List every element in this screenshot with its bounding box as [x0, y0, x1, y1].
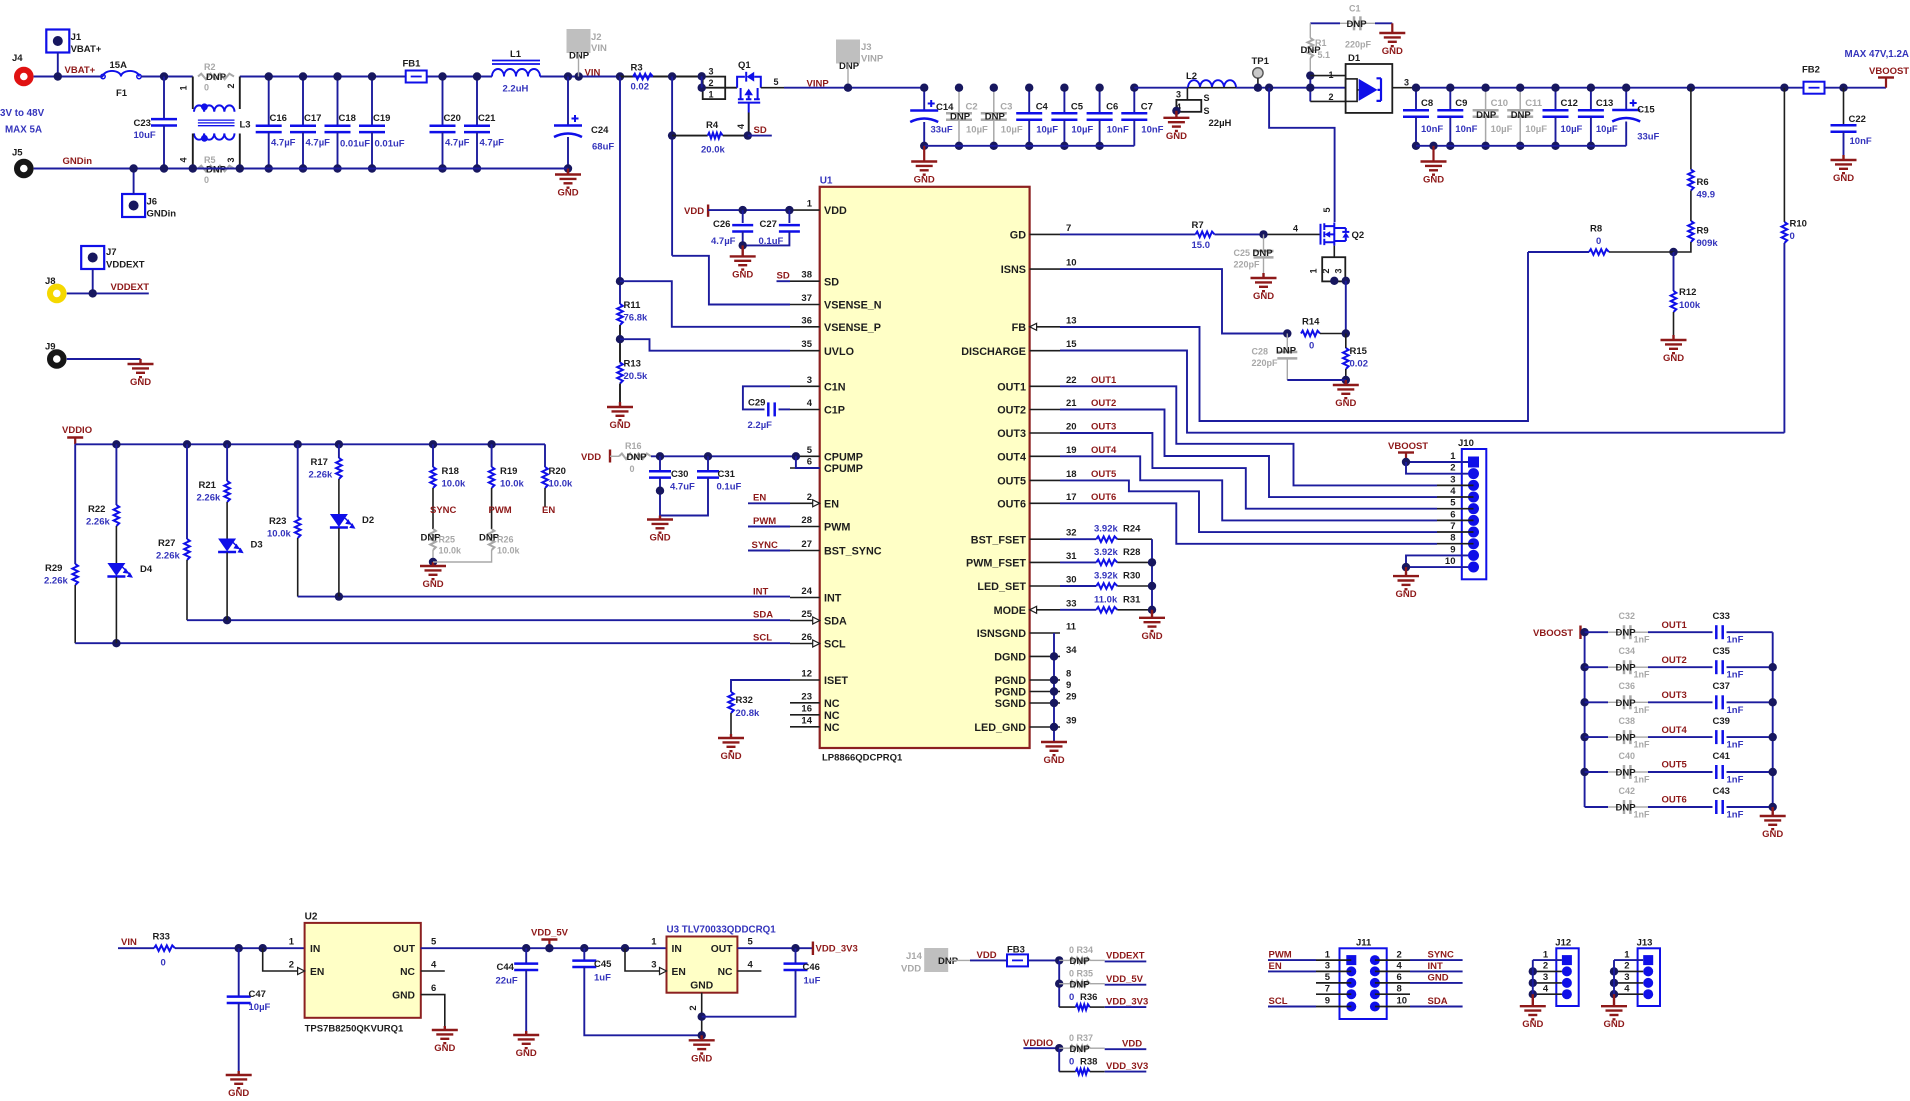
svg-text:SYNC: SYNC [430, 505, 457, 516]
resistor R24 3.92k [1060, 538, 1096, 540]
svg-text:GND: GND [1395, 589, 1416, 600]
svg-text:VINP: VINP [861, 54, 884, 65]
svg-text:1: 1 [1309, 268, 1319, 273]
ground R25 R26 [420, 562, 446, 579]
svg-text:20.0k: 20.0k [701, 145, 725, 156]
svg-text:10nF: 10nF [1141, 125, 1163, 136]
J10 pin 9 [1468, 550, 1479, 561]
svg-text:OUT1: OUT1 [1662, 620, 1688, 631]
svg-text:VBAT+: VBAT+ [71, 44, 102, 55]
svg-text:OUT2: OUT2 [1091, 398, 1116, 409]
svg-text:22uF: 22uF [496, 976, 518, 987]
svg-text:C11: C11 [1525, 98, 1543, 109]
svg-text:2: 2 [708, 78, 713, 88]
svg-text:0 R35: 0 R35 [1069, 968, 1093, 978]
svg-text:DNP: DNP [839, 61, 860, 72]
svg-text:VDDEXT: VDDEXT [1106, 951, 1145, 962]
J13 pin 3 [1643, 978, 1653, 988]
capacitor C34 DNP 1nF [1580, 663, 1588, 671]
capacitor C40 DNP 1nF [1580, 768, 1588, 776]
svg-text:VBOOST: VBOOST [1533, 628, 1573, 639]
svg-text:C31: C31 [718, 469, 736, 480]
capacitor C37 1nF [1648, 701, 1713, 703]
svg-text:33uF: 33uF [1637, 132, 1659, 143]
svg-text:10µF: 10µF [1071, 125, 1093, 136]
wire SDA bus [187, 619, 790, 621]
ground C47 [226, 1071, 252, 1088]
svg-text:VDD: VDD [824, 205, 847, 217]
svg-text:1: 1 [1450, 451, 1456, 462]
resistor R4 20.0k [671, 77, 673, 256]
U1 pin 28 PWM [790, 526, 820, 528]
svg-text:4: 4 [1450, 486, 1456, 497]
svg-text:2: 2 [226, 83, 236, 88]
svg-text:GND: GND [690, 981, 713, 992]
svg-text:DNP: DNP [1511, 110, 1532, 121]
resistor R38 0 to VDD_3V3 [1059, 1071, 1076, 1073]
svg-text:GND: GND [228, 1088, 249, 1099]
U1 pin 27 BST_SYNC [790, 550, 820, 552]
net label VDDEXT [1090, 959, 1105, 961]
connector J1 VBAT+ [46, 30, 69, 53]
common-mode choke L3 [192, 77, 194, 110]
svg-text:VDD_3V3: VDD_3V3 [1106, 1061, 1148, 1072]
U1 pin 39 LED_GND [1030, 726, 1060, 728]
U1 pin 35 UVLO [790, 350, 820, 352]
J10 pin 7 [1468, 527, 1479, 538]
svg-text:38: 38 [801, 270, 812, 281]
wire J4 to F1 [34, 76, 103, 78]
ground output cap bank [1760, 807, 1786, 829]
ground U1 ground pins [1041, 742, 1067, 755]
svg-text:5.1: 5.1 [1318, 50, 1331, 60]
svg-text:3: 3 [1176, 90, 1181, 100]
svg-text:VDDEXT: VDDEXT [106, 260, 145, 271]
capacitor C29 2.2uF flying cap [743, 386, 790, 409]
wire J10 pins 9-10 to ground [1406, 555, 1468, 567]
svg-text:2.26k: 2.26k [197, 493, 221, 504]
svg-text:R6: R6 [1697, 177, 1709, 188]
svg-text:1: 1 [708, 90, 713, 100]
capacitor C24 68uF polarized [567, 77, 569, 126]
ground C44 [513, 1031, 539, 1048]
svg-text:4: 4 [1543, 983, 1549, 994]
J11 pin 4 [1370, 966, 1380, 976]
svg-text:OUT1: OUT1 [1091, 375, 1117, 386]
svg-text:C36: C36 [1619, 681, 1636, 691]
svg-text:LED_SET: LED_SET [977, 581, 1026, 593]
svg-text:3: 3 [1325, 961, 1330, 972]
svg-text:1: 1 [289, 937, 295, 948]
ground right cap bank [1429, 142, 1437, 150]
U1 pin 3 C1N [790, 385, 820, 387]
svg-text:J3: J3 [861, 42, 872, 53]
svg-text:GND: GND [1522, 1019, 1543, 1030]
svg-text:GND: GND [691, 1053, 712, 1064]
capacitor C42 DNP 1nF [1585, 806, 1608, 808]
svg-text:OUT6: OUT6 [997, 498, 1026, 510]
svg-text:5: 5 [1450, 498, 1456, 509]
svg-text:0: 0 [204, 175, 209, 185]
svg-text:C1N: C1N [824, 381, 846, 393]
ground R32 [718, 734, 744, 751]
svg-text:10nF: 10nF [1455, 124, 1477, 135]
svg-text:VBAT+: VBAT+ [65, 65, 96, 76]
svg-text:VDDIO: VDDIO [62, 425, 92, 436]
J11 pin8 stub [1375, 993, 1410, 995]
U1 pin 9 PGND [1030, 691, 1060, 693]
U1 pin 26 SCL [790, 643, 820, 645]
ground C25 [1251, 273, 1277, 291]
svg-text:PGND: PGND [995, 687, 1026, 699]
capacitor C6 10nF [1099, 88, 1101, 114]
svg-text:3: 3 [1543, 972, 1548, 983]
svg-text:C25: C25 [1234, 248, 1251, 258]
svg-text:9: 9 [1325, 996, 1330, 1007]
svg-text:R2: R2 [204, 62, 216, 72]
capacitor C23 10uF [163, 77, 165, 120]
svg-text:DNP: DNP [1476, 110, 1497, 121]
J11 pin 10 [1370, 1002, 1380, 1012]
svg-text:DNP: DNP [1253, 248, 1274, 259]
svg-text:IN: IN [310, 944, 320, 955]
wire output cap bank right bus [1772, 632, 1774, 807]
svg-text:R26: R26 [497, 535, 514, 545]
svg-text:D4: D4 [140, 564, 153, 575]
wire VDDIO rail [75, 443, 545, 445]
ground U2 pin 6 [432, 1026, 458, 1043]
svg-text:C46: C46 [803, 962, 820, 973]
capacitor C25 DNP 220pF [1263, 234, 1265, 251]
transistor Q1 pin box [703, 77, 726, 100]
wire F1 to L3 [141, 76, 193, 78]
U1 pin 5 CPUMP [790, 455, 820, 457]
svg-text:0: 0 [1069, 1056, 1074, 1067]
svg-text:76.8k: 76.8k [624, 313, 648, 324]
svg-text:33uF: 33uF [931, 125, 953, 136]
svg-text:20: 20 [1066, 422, 1077, 433]
svg-text:3: 3 [1450, 474, 1455, 485]
wire output cap bank left bus [1584, 632, 1586, 807]
svg-text:68uF: 68uF [592, 142, 614, 153]
svg-text:DNP: DNP [1070, 956, 1091, 967]
U2 IC body TPS7B8250QKVURQ1 [305, 923, 421, 1018]
svg-text:C47: C47 [249, 989, 266, 1000]
J11 pin 7 [1346, 989, 1356, 999]
svg-text:3: 3 [1404, 78, 1409, 88]
U1 pin 21 OUT2 [1030, 409, 1060, 411]
svg-text:VDD_3V3: VDD_3V3 [816, 944, 858, 955]
svg-text:INT: INT [1428, 961, 1444, 972]
svg-text:VDD: VDD [581, 452, 601, 463]
svg-text:VSENSE_P: VSENSE_P [824, 322, 881, 334]
svg-text:10µF: 10µF [1036, 125, 1058, 136]
capacitor C7 10nF [1133, 88, 1135, 114]
svg-text:4: 4 [1397, 961, 1403, 972]
svg-text:GND: GND [1603, 1019, 1624, 1030]
U1 pin 37 VSENSE_N [790, 304, 820, 306]
ground J9 [128, 359, 154, 377]
capacitor C2 10µF DNP [958, 88, 960, 114]
svg-text:C18: C18 [339, 113, 356, 124]
svg-text:EN: EN [542, 505, 555, 516]
svg-text:0: 0 [630, 464, 635, 474]
svg-text:19: 19 [1066, 445, 1077, 456]
capacitor C26 4.7uF [742, 210, 744, 223]
svg-text:20.8k: 20.8k [736, 708, 760, 719]
svg-text:0.02: 0.02 [631, 82, 650, 93]
svg-text:C45: C45 [594, 959, 612, 970]
wire right cap bank bottom bus [1416, 145, 1626, 147]
capacitor C9 10nF [1449, 88, 1451, 110]
svg-text:10µF: 10µF [249, 1002, 271, 1013]
svg-text:MAX 5A: MAX 5A [5, 125, 42, 136]
svg-text:GND: GND [732, 269, 753, 280]
svg-text:1nF: 1nF [1727, 705, 1744, 716]
J10 pin 3 [1468, 480, 1479, 491]
capacitor C45 1uF [580, 944, 588, 952]
U1 pin 20 OUT3 [1030, 432, 1060, 434]
svg-text:C40: C40 [1619, 751, 1636, 761]
connector J10 [1462, 449, 1487, 579]
ground C26 C27 [730, 245, 756, 269]
svg-text:R7: R7 [1192, 220, 1204, 231]
svg-text:VDD: VDD [901, 964, 921, 975]
svg-text:PWM: PWM [489, 505, 512, 516]
svg-text:OUT1: OUT1 [997, 381, 1026, 393]
svg-text:PWM: PWM [824, 522, 850, 534]
J12 pin 4 [1562, 989, 1572, 999]
LED D2 [330, 514, 348, 527]
J11 pin 5 [1346, 978, 1356, 988]
U1 pin 30 LED_SET [1030, 585, 1060, 587]
J10 pin 1 [1468, 457, 1479, 468]
wire OUT3 to J10 pin5 [1060, 433, 1437, 509]
U1 pin 12 ISET [790, 679, 820, 681]
svg-text:R31: R31 [1123, 594, 1141, 605]
svg-text:10µF: 10µF [1596, 124, 1618, 135]
resistor R10 0 [1780, 84, 1788, 92]
svg-text:GND: GND [1833, 173, 1854, 184]
svg-text:25: 25 [801, 609, 812, 620]
svg-text:6: 6 [807, 457, 812, 468]
svg-text:3: 3 [226, 157, 236, 162]
svg-text:C33: C33 [1713, 611, 1730, 622]
svg-text:3.92k: 3.92k [1094, 571, 1118, 582]
svg-text:2: 2 [1624, 961, 1629, 972]
svg-text:OUT3: OUT3 [1091, 422, 1116, 433]
svg-text:L1: L1 [510, 49, 522, 60]
svg-text:C29: C29 [748, 398, 765, 409]
svg-text:0: 0 [161, 958, 166, 969]
connector J11 [1340, 948, 1387, 1019]
svg-text:BST_FSET: BST_FSET [971, 534, 1027, 546]
svg-text:1nF: 1nF [1727, 810, 1744, 821]
U1 pin 7 GD [1030, 233, 1060, 235]
resistor R37 DNP 0 to VDD [1059, 1047, 1070, 1049]
U1 pin 11 ISNSGND [1030, 632, 1060, 634]
svg-text:10: 10 [1066, 258, 1077, 269]
svg-text:GND: GND [1423, 175, 1444, 186]
svg-text:100k: 100k [1679, 300, 1701, 311]
svg-text:VDDIO: VDDIO [1023, 1038, 1053, 1049]
svg-text:SCL: SCL [824, 639, 846, 651]
wire OUT4 to J10 pin6 [1060, 456, 1437, 520]
svg-text:1: 1 [807, 199, 813, 210]
U3 IC body TLV70033QDDCRQ1 [667, 937, 738, 993]
svg-text:7: 7 [1066, 223, 1071, 234]
svg-text:DNP: DNP [950, 112, 971, 123]
capacitor C38 DNP 1nF [1580, 733, 1588, 741]
svg-text:IN: IN [672, 944, 682, 955]
svg-text:4.7uF: 4.7uF [670, 482, 695, 493]
svg-text:R9: R9 [1697, 226, 1709, 237]
svg-text:J13: J13 [1637, 937, 1653, 948]
svg-text:35: 35 [801, 339, 812, 350]
resistor R29 2.26k [74, 444, 76, 564]
resistor R31 11.0k [1060, 609, 1096, 611]
svg-text:C38: C38 [1619, 716, 1636, 726]
capacitor C28 DNP 220pF [1286, 334, 1288, 353]
svg-text:SGND: SGND [995, 698, 1026, 710]
capacitor C17 4.7uF [302, 77, 304, 126]
svg-text:4.7µF: 4.7µF [306, 138, 331, 149]
svg-text:INT: INT [753, 587, 769, 598]
svg-text:EN: EN [310, 967, 324, 978]
U1 pin 34 DGND [1030, 655, 1060, 657]
diode D1 symbol [1359, 79, 1378, 101]
U1 pin 16 NC [790, 714, 820, 716]
svg-text:OUT6: OUT6 [1091, 492, 1116, 503]
svg-text:C23: C23 [134, 118, 151, 129]
svg-text:U1: U1 [820, 176, 833, 187]
U1 pin 4 C1P [790, 409, 820, 411]
svg-text:2.26k: 2.26k [86, 517, 110, 528]
svg-text:1nF: 1nF [1634, 705, 1651, 715]
svg-text:C13: C13 [1596, 98, 1613, 109]
svg-text:22µH: 22µH [1209, 118, 1232, 129]
svg-text:SDA: SDA [824, 616, 847, 628]
net label VBOOST top right [1885, 78, 1887, 88]
svg-text:VBOOST: VBOOST [1388, 441, 1428, 452]
svg-text:8: 8 [1066, 669, 1071, 680]
svg-text:7: 7 [1325, 983, 1330, 994]
svg-text:R12: R12 [1679, 287, 1696, 298]
svg-text:0.01uF: 0.01uF [340, 139, 370, 150]
ground L2 pin 4 [1172, 107, 1180, 115]
wire U1 ground pins bus [1053, 633, 1055, 742]
J10 pin 10 [1468, 562, 1479, 573]
svg-text:NC: NC [824, 710, 840, 722]
svg-text:VINP: VINP [807, 79, 830, 90]
svg-text:3.92k: 3.92k [1094, 524, 1118, 535]
svg-text:4.7µF: 4.7µF [445, 138, 470, 149]
svg-text:10µF: 10µF [966, 125, 988, 136]
U1 pin 1 VDD [790, 209, 820, 211]
svg-text:R23: R23 [269, 516, 286, 527]
J12 pin 1 [1562, 955, 1572, 965]
svg-text:GND: GND [1166, 131, 1187, 142]
capacitor C19 0.01uF [371, 77, 373, 126]
svg-text:GND: GND [1335, 398, 1356, 409]
svg-text:GND: GND [1762, 829, 1783, 840]
connector J6 GNDin [122, 194, 145, 217]
svg-text:DGND: DGND [994, 652, 1026, 664]
svg-text:13: 13 [1066, 315, 1077, 326]
svg-text:R13: R13 [624, 359, 641, 370]
svg-text:3: 3 [1333, 268, 1343, 273]
capacitor C27 0.1uF [788, 210, 790, 223]
ground R13 [607, 402, 633, 420]
svg-text:2: 2 [289, 960, 294, 971]
U1 pin 8 PGND [1030, 679, 1060, 681]
svg-text:DNP: DNP [206, 72, 227, 83]
svg-text:24: 24 [801, 586, 812, 597]
svg-text:OUT4: OUT4 [997, 451, 1026, 463]
capacitor C3 10µF DNP [993, 88, 995, 114]
svg-text:C26: C26 [713, 219, 730, 230]
svg-text:DNP: DNP [1276, 346, 1297, 357]
resistor R18 10.0k [432, 444, 434, 467]
svg-text:EN: EN [824, 498, 839, 510]
svg-text:1: 1 [179, 85, 189, 90]
svg-text:VBOOST: VBOOST [1869, 66, 1909, 77]
svg-text:OUT4: OUT4 [1091, 445, 1117, 456]
svg-text:VDD: VDD [1122, 1038, 1142, 1049]
svg-text:R4: R4 [706, 120, 719, 131]
capacitor C36 DNP 1nF [1580, 698, 1588, 706]
svg-text:J9: J9 [45, 342, 56, 353]
svg-text:29: 29 [1066, 692, 1077, 703]
svg-text:GNDin: GNDin [147, 209, 177, 220]
svg-text:SDA: SDA [753, 610, 773, 621]
svg-text:17: 17 [1066, 492, 1077, 503]
wire VBOOST to J10 pins 1-2 [1406, 461, 1468, 463]
J11 pin 3 [1346, 966, 1356, 976]
svg-text:39: 39 [1066, 716, 1077, 727]
svg-text:3: 3 [708, 67, 713, 77]
svg-text:R28: R28 [1123, 547, 1140, 558]
wire VDDEXT [92, 269, 94, 293]
svg-text:C20: C20 [444, 113, 461, 124]
svg-text:TP1: TP1 [1252, 56, 1270, 67]
svg-text:J8: J8 [45, 276, 56, 287]
wire J1 to rail [57, 53, 59, 77]
U1 pin 36 VSENSE_P [790, 326, 820, 328]
svg-text:R17: R17 [311, 457, 328, 468]
svg-text:21: 21 [1066, 398, 1077, 409]
connector J9 banana jack GND [50, 352, 64, 366]
svg-text:6: 6 [1450, 509, 1455, 520]
svg-text:SD: SD [777, 271, 790, 282]
svg-text:R25: R25 [439, 535, 456, 545]
capacitor C33 1nF [1648, 631, 1713, 633]
svg-text:CPUMP: CPUMP [824, 463, 863, 475]
svg-text:OUT: OUT [711, 944, 733, 955]
svg-text:R29: R29 [45, 563, 62, 574]
resistor R16 DNP 0 [610, 455, 619, 457]
svg-text:C1P: C1P [824, 405, 845, 417]
svg-text:C22: C22 [1849, 114, 1866, 125]
svg-text:1nF: 1nF [1727, 670, 1744, 681]
svg-text:15A: 15A [110, 60, 128, 71]
svg-text:C7: C7 [1141, 102, 1153, 113]
svg-text:909k: 909k [1697, 238, 1719, 249]
svg-text:1: 1 [1624, 949, 1630, 960]
svg-text:4: 4 [736, 124, 746, 129]
svg-text:GND: GND [1253, 291, 1274, 302]
svg-text:PGND: PGND [995, 675, 1026, 687]
